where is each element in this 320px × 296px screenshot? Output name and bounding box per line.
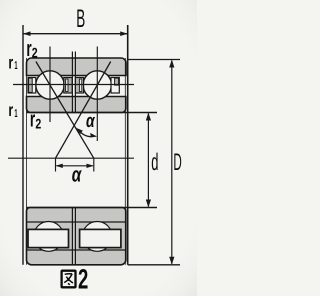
svg-text:1: 1 <box>14 60 17 72</box>
cage pocket D (right of ball B2) <box>111 78 119 94</box>
centerline ball B2 vertical <box>96 47 98 142</box>
left fillet tangent line <box>26 58 28 265</box>
svg-text:2: 2 <box>78 264 88 295</box>
outer ring top section (upper gray band) <box>26 58 126 76</box>
cage pocket A (left of ball B1) <box>28 78 36 94</box>
split line between duplex halves (right) <box>74 52 76 113</box>
D extension top <box>128 59 180 61</box>
svg-text:B: B <box>76 5 85 33</box>
ball B4 (bottom-right) <box>82 222 112 252</box>
d dimension line <box>146 113 151 208</box>
extension stub left for alpha dim <box>55 158 57 171</box>
centerline ball B1 vertical <box>49 47 51 123</box>
svg-text:2: 2 <box>32 45 38 61</box>
centerline balls horizontal <box>13 84 134 86</box>
label r1 top <box>8 53 17 73</box>
svg-text:α: α <box>86 111 95 132</box>
svg-text:1: 1 <box>14 108 17 120</box>
svg-text:r: r <box>8 53 13 73</box>
angle arc with arrows (upper alpha) <box>76 128 97 137</box>
label r1 bottom <box>8 100 17 120</box>
right face line <box>127 25 129 265</box>
cage front rect left <box>28 229 69 247</box>
svg-text:d: d <box>151 149 158 176</box>
cage pocket C (left of ball B2) <box>75 78 83 94</box>
bore line top / d extension top <box>27 112 158 114</box>
B dimension line <box>23 31 128 36</box>
D extension bottom <box>128 264 180 266</box>
ball B2 (top-right) <box>83 71 111 99</box>
split line between duplex halves (left) <box>71 52 73 113</box>
cage front rect right <box>80 229 121 247</box>
svg-text:α: α <box>72 164 82 187</box>
contact line L2 (through B2) <box>56 62 111 159</box>
split line bottom left <box>71 208 73 265</box>
bottom outer ring upper edge <box>27 249 126 251</box>
bottom section gray block <box>27 208 126 265</box>
bore line bottom / d extension bottom <box>27 207 158 209</box>
split line bottom right <box>74 208 76 265</box>
alpha dimension line <box>56 164 94 168</box>
svg-text:D: D <box>173 149 181 176</box>
svg-text:2: 2 <box>35 116 41 132</box>
left face line <box>22 25 24 265</box>
bottom inner ring lower edge <box>27 221 126 223</box>
axis line <box>8 157 134 159</box>
ball B1 (top-left) <box>36 71 64 99</box>
extension stub right for alpha dim <box>93 158 95 171</box>
label r2 bottom <box>30 107 42 132</box>
inner ring top section (lower gray band of upper half) <box>27 97 126 113</box>
label r2 top <box>26 36 37 61</box>
ball B3 (bottom-left) <box>34 222 64 252</box>
cage pocket B (right of ball B1) <box>64 78 72 94</box>
caption: hanzi TU (figure) drawn as paths <box>62 271 76 288</box>
contact line L1 (through B1) <box>36 62 94 159</box>
right fillet tangent line <box>124 58 126 265</box>
svg-text:r: r <box>8 100 13 120</box>
D dimension line <box>169 60 174 265</box>
